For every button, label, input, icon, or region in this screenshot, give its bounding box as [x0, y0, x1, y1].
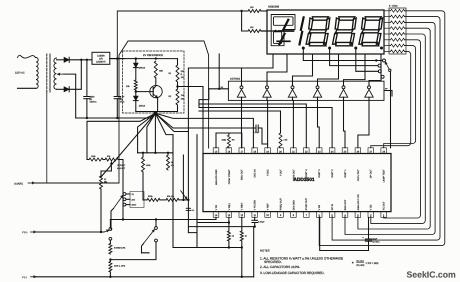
svg-text:OFFSET: OFFSET — [117, 164, 126, 167]
svg-text:2V REFERENCE: 2V REFERENCE — [143, 54, 163, 57]
svg-text:90k 1%: 90k 1% — [167, 195, 174, 198]
svg-text:SeekIC.com: SeekIC.com — [407, 270, 457, 280]
svg-text:GUARD: GUARD — [14, 183, 23, 186]
wire pin14 run — [110, 219, 216, 221]
capacitor C1 2500uF — [86, 60, 88, 97]
wire rectifier node — [69, 59, 92, 61]
svg-text:15VDC: 15VDC — [90, 101, 97, 104]
svg-text:2500: 2500 — [90, 95, 96, 98]
wire D2 to node — [69, 60, 81, 90]
svg-text:SW1 OUT: SW1 OUT — [241, 169, 244, 180]
wire long net B — [199, 104, 332, 148]
resistor R5 7.5k — [279, 133, 282, 148]
svg-text:200V: 200V — [132, 204, 137, 207]
driver triangle 6 — [368, 86, 371, 89]
wire driver left drop — [199, 89, 209, 104]
wire regulator output 5V — [110, 58, 124, 60]
resistor 90k 1% — [166, 198, 179, 201]
svg-text:V SS: V SS — [318, 204, 321, 210]
svg-text:10µF: 10µF — [372, 238, 378, 241]
svg-text:1N914: 1N914 — [139, 67, 146, 70]
wire guard loop — [35, 41, 209, 183]
wire pin13 branch — [197, 222, 229, 224]
display digit 8 second — [339, 17, 355, 20]
wire S1b wiper leg — [142, 252, 150, 254]
svg-text:V DD: V DD — [370, 204, 373, 210]
svg-text:f OSC: f OSC — [267, 169, 270, 176]
wire ray to C3 — [155, 113, 256, 128]
ac source 115V AC — [18, 55, 36, 58]
svg-text:1%: 1% — [181, 76, 184, 79]
diode D3 1N914 — [135, 59, 137, 63]
svg-text:SIGN OUT: SIGN OUT — [292, 169, 295, 181]
wire secondary bottom tap — [57, 88, 65, 90]
IC bottom pin boxes — [213, 212, 219, 218]
resistor R1 230 1% — [177, 59, 179, 65]
wire switch commons — [109, 220, 111, 228]
wire center tap — [58, 73, 65, 75]
wire ray to pin18 — [155, 113, 253, 148]
wire sign net to input — [188, 68, 241, 132]
wire 5V riser to top rail — [117, 11, 241, 59]
wires drivers to IC pins — [241, 100, 243, 147]
transformer T1 core — [46, 54, 48, 92]
wire shield to guard — [46, 92, 48, 183]
wire ray left A — [138, 113, 156, 153]
svg-text:0.47µF: 0.47µF — [258, 221, 265, 224]
wires decimal points to S3 — [303, 48, 382, 61]
wire net C to 7.5k — [199, 111, 281, 133]
resistor 1k pin13 — [228, 217, 230, 231]
svg-text:ANALOG V DD: ANALOG V DD — [357, 194, 360, 210]
svg-text:DIGIT 4: DIGIT 4 — [305, 169, 308, 178]
svg-text:DIGIT 1: DIGIT 1 — [344, 169, 347, 178]
capacitor C4 0.47uF — [254, 217, 256, 220]
node star ground — [154, 111, 158, 115]
IC top pin boxes — [213, 148, 219, 154]
svg-text:OVFL OUT: OVFL OUT — [357, 169, 360, 181]
wire reference bottoms — [136, 111, 178, 113]
svg-text:2. ALL CAPACITORS ±10%.: 2. ALL CAPACITORS ±10%. — [260, 265, 300, 269]
wire secondary top tap — [57, 59, 65, 61]
wire C3 to pin19 — [258, 128, 267, 144]
wire 5V to drivers — [209, 88, 229, 90]
svg-text:V IN(+): V IN(+) — [241, 203, 244, 211]
svg-text:SYNC OUT: SYNC OUT — [305, 198, 308, 211]
svg-text:= R3 = 2kΩ.: = R3 = 2kΩ. — [366, 262, 380, 265]
wires display digits to drivers — [242, 54, 274, 86]
svg-text:1k: 1k — [245, 235, 247, 238]
driver triangle 1 — [240, 86, 243, 89]
svg-text:1%: 1% — [181, 97, 184, 100]
svg-text:2MΩ: 2MΩ — [222, 139, 227, 142]
wiper arrow — [181, 191, 187, 199]
svg-text:V REF: V REF — [267, 203, 270, 210]
svg-text:f OUT: f OUT — [279, 169, 282, 176]
display digit 8 first — [312, 17, 328, 20]
svg-text:1%: 1% — [171, 164, 174, 167]
driver triangle 5 — [342, 86, 345, 89]
svg-text:FREQ OUT: FREQ OUT — [279, 198, 282, 211]
wire divider riser — [182, 155, 184, 200]
wire segment to pin 27 loop — [371, 51, 411, 147]
driver triangle 3 — [291, 86, 294, 89]
svg-text:V (+): V (+) — [22, 231, 27, 234]
svg-text:9.999M 10%: 9.999M 10% — [114, 247, 125, 250]
svg-text:SEG OUT: SEG OUT — [344, 199, 347, 210]
svg-text:DP IN: DP IN — [331, 204, 334, 210]
wire reference top rail — [124, 58, 178, 60]
switch S3 decimal select — [383, 59, 386, 62]
svg-text:8 - 150Ω: 8 - 150Ω — [389, 5, 398, 8]
switch S1b — [155, 220, 157, 227]
svg-text:10 VDC: 10 VDC — [372, 240, 380, 243]
resistor 1k pin12 — [241, 217, 243, 231]
svg-text:TC OUT: TC OUT — [383, 201, 386, 210]
svg-text:100k 1 .01%: 100k 1 .01% — [114, 265, 125, 268]
transistor Q1 — [150, 85, 162, 97]
svg-text:ANALOG GND: ANALOG GND — [215, 169, 218, 185]
svg-text:NOTES: NOTES — [260, 249, 270, 253]
wire ray left B — [147, 113, 156, 153]
svg-text:MΩ: MΩ — [104, 181, 108, 184]
svg-text:1k: 1k — [232, 235, 234, 238]
wire offset right leg — [118, 160, 123, 220]
svg-text:SPECIFIED.: SPECIFIED. — [264, 260, 282, 264]
resistor 620 — [154, 61, 157, 78]
svg-text:ADD3501: ADD3501 — [294, 177, 315, 183]
svg-text:DS75492: DS75492 — [230, 77, 241, 80]
svg-text:R1+R2: R1+R2 — [357, 264, 365, 267]
svg-text:DP OUT: DP OUT — [370, 169, 373, 178]
wire ray to Vin+ — [155, 113, 173, 247]
wires segment fan staircase — [319, 11, 445, 246]
wire junction drop — [187, 200, 189, 233]
wire bottom rail — [36, 276, 254, 278]
diode D2 — [64, 87, 69, 92]
capacitor C5 10uF — [368, 217, 370, 239]
resistor 900k — [143, 199, 147, 201]
svg-text:LM340-5: LM340-5 — [96, 60, 106, 63]
display decimal points — [302, 47, 305, 50]
wires display to pack — [384, 10, 391, 12]
wire segment to pin 28 loop — [384, 46, 416, 148]
potentiometer 50k offset — [105, 158, 118, 161]
svg-text:LAMP TEST: LAMP TEST — [383, 169, 386, 182]
display digit one — [301, 17, 304, 29]
svg-text:0.22µF: 0.22µF — [253, 131, 260, 134]
driver triangle 2 — [266, 86, 269, 89]
resistor 150k offset — [89, 158, 103, 161]
resistor 100k — [142, 153, 144, 157]
svg-text:DIG GND: DIG GND — [292, 200, 295, 210]
svg-text:V IN(-): V IN(-) — [228, 203, 231, 210]
wire long net A — [199, 104, 306, 148]
display polarity sign — [283, 20, 288, 30]
svg-text:1N914: 1N914 — [139, 105, 146, 108]
wire ray to offset — [101, 113, 155, 177]
svg-text:V (-): V (-) — [22, 276, 27, 279]
wire divider tops — [138, 152, 173, 154]
resistor R4 2M bracket — [216, 133, 242, 148]
resistor 22M — [100, 176, 103, 189]
resistor 10k — [134, 80, 137, 90]
wire vertical B — [188, 135, 197, 233]
wire reference output — [178, 87, 204, 154]
switch S2 — [104, 230, 109, 232]
switch S1a range — [123, 193, 126, 196]
wire ray to Vin- — [155, 113, 188, 200]
transformer T1 secondary — [54, 58, 57, 89]
wire divider junction — [183, 199, 188, 201]
IC U2 ADD3501 body — [203, 154, 391, 212]
wire display common riser — [218, 54, 220, 89]
svg-text:NSB5388: NSB5388 — [268, 6, 280, 9]
svg-text:V FB: V FB — [215, 205, 218, 211]
reference box 2V REFERENCE — [123, 51, 185, 113]
wire driver out right — [384, 91, 392, 97]
wire supply common rail — [76, 117, 152, 119]
svg-text:DIGIT 2: DIGIT 2 — [331, 169, 334, 178]
diode D1 — [64, 57, 69, 62]
wire to S1b bottom — [110, 242, 156, 260]
svg-text:3. LOW-LEAKAGE CAPACITOR REQU: 3. LOW-LEAKAGE CAPACITOR REQUIRED. — [260, 271, 325, 275]
wire ray to offset left — [87, 113, 155, 159]
display digit 8 third — [365, 17, 381, 20]
svg-text:CONV START: CONV START — [228, 169, 231, 184]
wire 1k bottoms — [173, 247, 242, 249]
transformer T1 primary — [36, 58, 38, 89]
driver triangle 4 — [316, 86, 319, 89]
svg-text:V FILTER: V FILTER — [254, 200, 257, 210]
wire primary bottom — [18, 87, 37, 89]
resistor R2 750 1% — [177, 82, 179, 89]
resistor 150 lower — [242, 11, 248, 31]
wire C4 common — [189, 226, 254, 228]
resistor R3 1k — [167, 153, 169, 155]
resistor 100k 0.1% — [109, 262, 112, 273]
capacitor 0.1uF — [186, 207, 190, 209]
wire into display — [262, 30, 279, 32]
svg-text:ADJUST: ADJUST — [117, 167, 126, 170]
svg-text:R1·R2: R1·R2 — [357, 260, 365, 263]
svg-text:OSC IN: OSC IN — [254, 169, 257, 177]
wire S3 common — [390, 71, 392, 148]
diode D4 1N914 — [135, 90, 137, 96]
display half digit outline — [271, 15, 295, 46]
svg-text:115V AC: 115V AC — [15, 72, 25, 75]
resistor 150 upper — [230, 10, 248, 12]
capacitor C2 1uF — [116, 59, 118, 97]
wire ray center — [154, 113, 156, 153]
resistor 9.99M — [109, 240, 111, 243]
capacitor C3 0.22uF — [255, 125, 257, 131]
svg-text:DIGIT 3: DIGIT 3 — [318, 169, 321, 178]
regulator U1 LM309 — [92, 52, 110, 64]
